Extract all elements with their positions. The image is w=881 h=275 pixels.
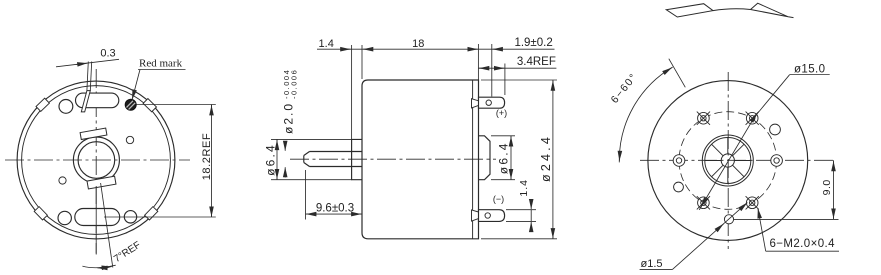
18.2REF dimension line with arrows xyxy=(211,105,213,106)
small hole right of boss xyxy=(126,136,133,143)
extension line terminal end xyxy=(504,64,506,96)
vent hole bottom (dia 1.5) xyxy=(724,215,733,224)
dia6.4 right bottom extension line xyxy=(491,179,515,181)
break symbol left quad xyxy=(666,4,713,17)
red mark filled circle xyxy=(125,99,136,110)
7deg arc arrow left xyxy=(97,267,103,269)
rear hub outer ring xyxy=(702,135,753,186)
7deg arc arrow right xyxy=(106,266,112,269)
svg-text:ø6.4: ø6.4 xyxy=(497,141,511,174)
svg-text:ø24.4: ø24.4 xyxy=(539,134,553,182)
middle view center line xyxy=(290,158,496,160)
dia2.0 tolerance text xyxy=(282,69,299,134)
3.4REF dimension line xyxy=(478,67,556,69)
svg-text:6−60°: 6−60° xyxy=(609,71,641,106)
rim crimp notch 4 xyxy=(145,207,158,220)
hole lower-right xyxy=(124,211,136,223)
dia24.4 bottom extension line xyxy=(481,238,557,240)
svg-text:3.4REF: 3.4REF xyxy=(517,56,556,68)
svg-text:1.9±0.2: 1.9±0.2 xyxy=(514,37,552,49)
svg-text:18: 18 xyxy=(412,38,424,50)
top vent slot (stadium) xyxy=(76,93,119,108)
screw hole M2.0 at 180 deg xyxy=(673,155,685,167)
svg-text:1.4: 1.4 xyxy=(518,179,530,197)
rear bearing boss xyxy=(479,136,491,180)
hole upper-left xyxy=(59,100,73,114)
boss retaining tab bottom xyxy=(87,176,116,189)
rim crimp notch 2 xyxy=(36,98,49,111)
arrow at body left edge xyxy=(363,48,373,50)
dia15.0 arrow at lower hole xyxy=(701,199,706,208)
dia6.4 left top extension line xyxy=(271,138,352,140)
dia1.5 underline xyxy=(640,269,673,271)
right view vertical center line xyxy=(727,72,729,249)
rear hub inner ring xyxy=(705,138,751,184)
dia1.5 arrow at screw hole xyxy=(741,203,747,208)
dia24.4 top extension line xyxy=(481,79,557,81)
vent hole upper right xyxy=(770,124,781,135)
0.3 dimension line xyxy=(56,59,119,67)
3.4REF right arrow xyxy=(495,67,505,69)
6-60deg dimension arc xyxy=(619,67,672,162)
extension line terminal hole xyxy=(491,44,493,97)
6-60deg radial extension line xyxy=(669,59,686,88)
7deg angle arc xyxy=(82,265,115,268)
svg-text:7°REF: 7°REF xyxy=(112,240,143,265)
terminal (-) hole xyxy=(485,213,490,218)
1.4 right dimension arrows xyxy=(530,199,532,209)
6-60deg arc arrow bottom xyxy=(618,153,620,161)
svg-text:ø6.4: ø6.4 xyxy=(264,143,278,176)
dia15.0 diagonal through holes xyxy=(699,117,754,210)
dia24.4 dimension line xyxy=(552,81,554,88)
9.0 bottom extension line xyxy=(734,218,839,220)
18.2REF top extension line xyxy=(137,104,216,106)
0.3 slit extension line right xyxy=(90,62,91,91)
terminal (-) bracket xyxy=(472,210,479,221)
shaft tip chamfer bottom xyxy=(304,163,310,167)
terminal (+) hole xyxy=(486,100,491,105)
small hole lower-left of boss xyxy=(59,177,66,184)
1.4 right extension lines xyxy=(506,209,536,211)
screw hole M2.0 at 60 deg xyxy=(746,112,758,124)
front bearing boss xyxy=(352,139,362,179)
dia6.4 left bottom extension line xyxy=(271,179,352,181)
9.0 dimension line xyxy=(833,161,835,171)
7deg vertical reference line xyxy=(95,186,97,255)
bolt circle (dashed) xyxy=(679,112,777,210)
break symbol connecting curve xyxy=(713,9,751,11)
center bearing boss outer circle xyxy=(73,137,119,183)
shaft bottom line xyxy=(310,166,363,168)
screw hole M2.0 at 0 deg xyxy=(771,155,783,167)
svg-text:9.0: 9.0 xyxy=(821,179,833,195)
rim crimp notch 3 xyxy=(34,207,47,220)
bottom vent slot (stadium) xyxy=(75,209,120,226)
svg-text:(−): (−) xyxy=(493,194,504,204)
screw hole M2.0 at 300 deg xyxy=(746,197,758,209)
right view outer circle (end cap) xyxy=(648,81,808,241)
svg-text:ø1.5: ø1.5 xyxy=(641,258,663,270)
0.3 dimension arrow xyxy=(76,63,87,64)
extension line body right edge top xyxy=(477,44,479,80)
screw hole M2.0 at 240 deg xyxy=(698,197,710,209)
svg-text:6−M2.0×0.4: 6−M2.0×0.4 xyxy=(770,238,836,250)
svg-text:1.4: 1.4 xyxy=(319,38,334,50)
dia6.4 right dimension line xyxy=(510,136,512,143)
left view vertical center line xyxy=(95,69,97,254)
left view motor front face: horizontal center line xyxy=(5,159,190,161)
hole lower-left xyxy=(58,211,71,224)
top dimension line xyxy=(317,48,555,50)
motor body outline (side view) xyxy=(362,80,479,239)
boss retaining tab top xyxy=(80,128,107,139)
left view inner rim circle xyxy=(22,86,171,235)
dia6.4 left dimension line xyxy=(276,140,278,147)
end cap seam line xyxy=(472,80,474,239)
9.6 dimension line xyxy=(306,213,317,215)
svg-text:0.3: 0.3 xyxy=(100,48,115,60)
dia15.0 arrow at upper hole xyxy=(751,113,757,121)
arrow at body right edge xyxy=(468,48,478,50)
svg-text:(+): (+) xyxy=(496,108,507,118)
svg-text:9.6±0.3: 9.6±0.3 xyxy=(316,202,354,214)
left view outer circle (motor can rim) xyxy=(17,81,175,239)
svg-text:Red mark: Red mark xyxy=(139,58,183,70)
Red mark label underline xyxy=(138,69,186,71)
dia15.0 underline xyxy=(790,74,830,76)
break symbol right triangle xyxy=(751,3,794,17)
terminal (-) blade xyxy=(479,210,505,222)
svg-text:18.2REF: 18.2REF xyxy=(201,133,213,181)
shaft tip chamfer top xyxy=(304,152,310,156)
shaft tip face xyxy=(303,156,305,163)
6-M2.0x0.4 leader xyxy=(758,208,766,251)
vent hole lower left xyxy=(674,182,684,192)
right view horizontal center line xyxy=(640,159,833,161)
dia1.5 leader xyxy=(672,203,747,270)
18.2REF bottom extension line xyxy=(104,216,216,218)
arrow at terminal line xyxy=(493,48,503,50)
terminal (+) bracket xyxy=(472,99,479,108)
9.6 left extension line xyxy=(305,170,307,220)
3.4REF left arrow xyxy=(479,67,489,69)
svg-text:-0.006: -0.006 xyxy=(290,69,299,99)
dia1.5 arrow at bottom hole xyxy=(718,224,724,230)
alignment slit in top slot xyxy=(81,91,90,112)
rim crimp notch 1 xyxy=(143,99,156,112)
6-M2.0x0.4 underline xyxy=(766,250,839,252)
extension line body left edge xyxy=(361,45,363,79)
rear hub spokes xyxy=(734,160,750,162)
0.3 slit extension line left xyxy=(87,62,88,91)
screw hole M2.0 at 120 deg xyxy=(698,112,710,124)
6-60deg arc arrow top xyxy=(668,68,672,71)
dia6.4 right top extension line xyxy=(491,135,515,137)
7deg tilted line xyxy=(101,183,113,268)
svg-text:ø2.0: ø2.0 xyxy=(282,102,296,134)
center bearing boss inner circle xyxy=(78,142,115,179)
svg-text:ø15.0: ø15.0 xyxy=(794,63,825,75)
arrow at boss face xyxy=(340,48,350,50)
extension line boss face xyxy=(351,45,353,139)
dia15.0 leader upper segment xyxy=(755,75,790,117)
shaft top line xyxy=(310,151,363,153)
terminal (+) blade xyxy=(479,97,505,108)
dia2.0 dimension arrows xyxy=(284,141,286,151)
Red mark leader arrow xyxy=(132,70,140,100)
rear shaft hole xyxy=(721,154,734,167)
